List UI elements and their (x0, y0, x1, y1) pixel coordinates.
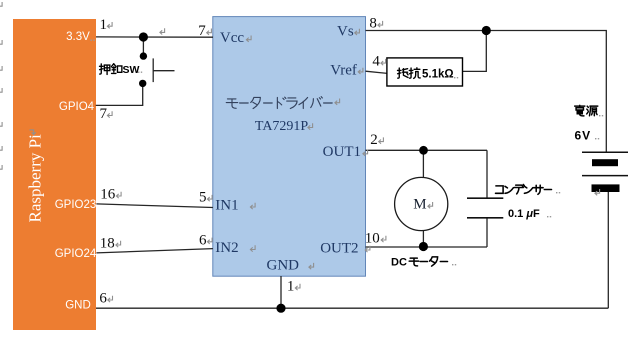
svg-text:Vcc: Vcc (220, 30, 244, 46)
svg-text:M: M (413, 197, 426, 213)
svg-text:GPIO24: GPIO24 (55, 248, 97, 260)
svg-text:16: 16 (100, 187, 116, 203)
svg-text:18: 18 (100, 236, 115, 252)
svg-text:1: 1 (287, 279, 295, 295)
svg-text:5.1kΩ: 5.1kΩ (422, 69, 454, 81)
svg-text:8: 8 (369, 16, 377, 32)
svg-text:0.1 μF: 0.1 μF (508, 208, 540, 220)
svg-text:TA7291P: TA7291P (255, 119, 309, 134)
svg-text:4: 4 (372, 54, 380, 70)
svg-text:OUT1: OUT1 (323, 144, 361, 160)
svg-text:GND: GND (65, 300, 91, 312)
svg-text:6: 6 (99, 291, 107, 307)
svg-text:GPIO4: GPIO4 (59, 101, 95, 113)
svg-text:6: 6 (199, 232, 207, 248)
svg-text:SW: SW (123, 64, 140, 76)
svg-text:IN2: IN2 (215, 240, 238, 256)
svg-text:GPIO23: GPIO23 (55, 199, 97, 211)
svg-text:Raspberry Pi: Raspberry Pi (26, 134, 45, 223)
svg-text:1: 1 (100, 17, 108, 33)
svg-text:10: 10 (365, 231, 380, 247)
svg-text:3.3V: 3.3V (66, 31, 90, 43)
svg-text:IN1: IN1 (215, 197, 238, 213)
svg-text:GND: GND (267, 258, 300, 274)
svg-text:DC: DC (391, 257, 407, 269)
svg-text:5: 5 (199, 190, 207, 206)
svg-text:OUT2: OUT2 (320, 240, 358, 256)
svg-text:7: 7 (198, 23, 206, 39)
svg-text:7: 7 (100, 106, 108, 122)
svg-text:Vref: Vref (330, 62, 357, 78)
svg-text:Vs: Vs (337, 23, 354, 39)
svg-text:2: 2 (370, 132, 378, 148)
svg-text:6V: 6V (575, 128, 592, 142)
